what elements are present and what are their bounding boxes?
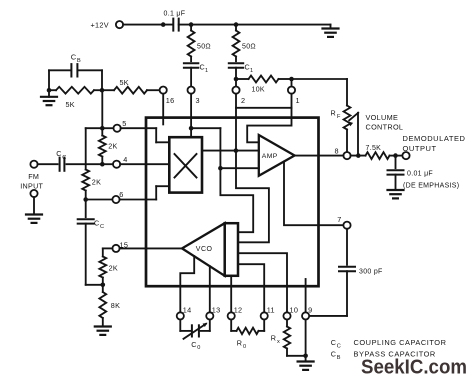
wire pin15 into IC xyxy=(120,247,182,249)
svg-text:0.1 μF: 0.1 μF xyxy=(164,11,186,18)
svg-text:2K: 2K xyxy=(108,142,117,151)
svg-text:11: 11 xyxy=(267,305,275,314)
capacitor CB xyxy=(49,53,102,77)
pin 5 terminal xyxy=(114,119,127,132)
wire pin6 into IC xyxy=(120,186,170,199)
wire pin12-R0 xyxy=(231,320,236,331)
oscillator VCO xyxy=(182,223,238,276)
capacitor 300pF xyxy=(339,267,383,276)
wiper arrow RF xyxy=(348,113,403,156)
svg-text:2: 2 xyxy=(241,96,245,105)
resistor 50ohm-2 xyxy=(233,31,256,57)
resistor 50ohm-1 xyxy=(188,31,211,57)
svg-text:4: 4 xyxy=(123,155,127,164)
node wiper-out xyxy=(356,153,361,158)
svg-text:+12V: +12V xyxy=(91,21,109,30)
node rail-50ohm-1 xyxy=(189,22,194,27)
resistor 2K-1 xyxy=(99,128,118,164)
pin 16 terminal xyxy=(160,87,175,106)
pin 8 terminal xyxy=(335,147,351,160)
pin 6 terminal xyxy=(112,190,123,203)
svg-text:50Ω: 50Ω xyxy=(197,44,211,51)
potentiometer RF xyxy=(331,106,351,130)
wire RF-pin8 xyxy=(346,130,348,152)
multiplier block xyxy=(169,137,202,192)
wire 50ohm2-C1 xyxy=(235,57,237,62)
pin 7 terminal xyxy=(337,215,350,229)
pin 15 terminal xyxy=(112,240,128,252)
legend CC xyxy=(331,338,447,350)
wire amp output pin8 xyxy=(295,155,344,157)
svg-text:C: C xyxy=(191,340,197,349)
node output xyxy=(393,153,398,158)
svg-text:C: C xyxy=(337,343,341,349)
wire +12V rail left xyxy=(123,24,172,26)
wire 50ohm1 top xyxy=(190,25,192,31)
wire VCO-pin13 xyxy=(209,266,211,312)
svg-text:x: x xyxy=(277,339,280,345)
wire 50ohm1-C1 xyxy=(190,57,192,62)
wire C1-pin3 xyxy=(190,68,192,87)
wire nodeB down xyxy=(85,200,87,218)
op-amp AMP xyxy=(259,135,295,176)
node rail-pin16 xyxy=(161,22,166,27)
wire 300pF-pin9 xyxy=(309,271,347,316)
wire 7.5K-out xyxy=(390,155,403,157)
svg-text:C: C xyxy=(100,224,104,230)
wire pin4 into IC xyxy=(120,163,169,165)
svg-text:9: 9 xyxy=(308,305,312,314)
svg-text:R: R xyxy=(271,334,277,343)
svg-text:B: B xyxy=(337,355,341,361)
svg-text:C: C xyxy=(62,155,66,161)
svg-text:0.01 μF: 0.01 μF xyxy=(407,171,433,178)
node J2 xyxy=(234,148,239,153)
resistor 5K-2 xyxy=(102,78,160,93)
pin 10 terminal xyxy=(283,305,298,319)
ground pin9 xyxy=(298,356,314,370)
svg-text:INPUT: INPUT xyxy=(20,182,43,191)
capacitor C1-1 xyxy=(184,63,208,74)
demodulated output terminal xyxy=(402,134,465,159)
pin 13 terminal xyxy=(206,305,220,319)
svg-text:FM: FM xyxy=(28,172,39,181)
wire pin13-C0 xyxy=(201,320,210,331)
node CB-right xyxy=(100,88,105,93)
svg-text:7.5K: 7.5K xyxy=(366,145,382,152)
svg-text:0: 0 xyxy=(197,345,200,351)
wire pin5 into IC xyxy=(121,128,170,142)
svg-text:10K: 10K xyxy=(252,87,265,94)
wire nodeB-pin6 xyxy=(86,199,113,201)
pin 1 terminal xyxy=(288,79,300,105)
node 10K-left xyxy=(234,77,239,82)
wire CBnode down xyxy=(101,90,103,128)
wire J1-J3 xyxy=(191,128,220,168)
wire mult-amp input upper xyxy=(202,150,259,152)
pin 2 terminal xyxy=(232,87,245,106)
wire pin9 down xyxy=(305,320,307,356)
svg-text:12: 12 xyxy=(234,305,243,314)
wire pin1-RF xyxy=(292,79,348,106)
node CB-left xyxy=(47,88,52,93)
svg-text:0: 0 xyxy=(243,344,246,350)
wire pin10-Rx xyxy=(286,320,288,327)
svg-text:C: C xyxy=(94,219,100,228)
resistor 2K-3 xyxy=(99,257,118,285)
svg-text:5: 5 xyxy=(122,119,126,128)
wire CB left leg xyxy=(48,70,50,90)
wire VCO-pin14 xyxy=(180,256,194,312)
wire VCO-pin10 xyxy=(238,253,287,312)
wire VCO-pin11 xyxy=(238,264,264,312)
node B pin6 junction xyxy=(83,197,88,202)
ground 8K xyxy=(95,327,111,335)
svg-text:C: C xyxy=(331,338,337,347)
wire pin2-pin1 link xyxy=(236,94,292,108)
resistor Rx xyxy=(271,327,290,349)
svg-text:F: F xyxy=(337,114,341,120)
wire nodeD-pin4 xyxy=(102,163,113,165)
node J3 xyxy=(218,166,223,171)
svg-text:1: 1 xyxy=(250,68,253,74)
wire amp-pin7 xyxy=(284,162,343,226)
svg-text:13: 13 xyxy=(212,305,221,314)
resistor 2K-2 xyxy=(82,170,101,200)
svg-text:B: B xyxy=(77,58,81,64)
svg-text:16: 16 xyxy=(166,96,175,105)
wire Rx-gnd xyxy=(287,349,306,356)
svg-text:3: 3 xyxy=(196,96,200,105)
svg-text:14: 14 xyxy=(183,305,192,314)
pin 12 terminal xyxy=(228,305,243,319)
FM input terminal xyxy=(20,161,43,191)
node J1 xyxy=(189,126,194,131)
svg-text:5K: 5K xyxy=(120,78,129,87)
svg-text:DEMODULATED: DEMODULATED xyxy=(403,134,466,143)
wire C1-node xyxy=(235,68,237,87)
pin 3 terminal xyxy=(188,87,200,106)
wire nodeA-pin5 xyxy=(102,127,113,129)
svg-text:OUTPUT: OUTPUT xyxy=(403,144,437,153)
node 10K-pin1 xyxy=(289,77,294,82)
capacitor 0.1uF xyxy=(164,11,186,31)
node pin9-gnd xyxy=(303,354,308,359)
capacitor C1-2 xyxy=(229,63,253,74)
wire pin2 stub xyxy=(235,94,237,108)
node rail-50ohm-2 xyxy=(234,22,239,27)
svg-text:6: 6 xyxy=(119,190,123,199)
capacitor CC coupling xyxy=(56,149,66,171)
watermark SeekIC.com xyxy=(361,356,467,379)
wire CC2 down xyxy=(86,224,103,285)
resistor 8K xyxy=(99,285,120,327)
wire out-cap xyxy=(395,156,397,169)
svg-text:8: 8 xyxy=(335,147,339,156)
svg-text:5K: 5K xyxy=(66,100,75,109)
wire pin14-C0 xyxy=(180,320,190,331)
wire pin15 left xyxy=(103,248,113,256)
svg-text:(DE EMPHASIS): (DE EMPHASIS) xyxy=(403,182,459,189)
wire rail mid xyxy=(179,24,331,26)
wire pin2 down staircase xyxy=(236,108,269,243)
resistor 5K-1 xyxy=(49,87,102,109)
svg-text:2K: 2K xyxy=(92,178,101,187)
svg-text:R: R xyxy=(331,109,337,118)
IC U1 outline xyxy=(146,118,319,287)
wire nodeA branch left xyxy=(86,128,103,169)
capacitor C0 variable xyxy=(184,323,208,351)
svg-text:8K: 8K xyxy=(111,301,120,310)
wire pin7-300pF xyxy=(346,229,348,265)
ground CB xyxy=(41,90,57,105)
wire amp input lower xyxy=(220,167,258,169)
svg-text:C: C xyxy=(331,349,337,358)
wire CC-nodeD xyxy=(67,163,103,165)
node C xyxy=(101,283,106,288)
capacitor CC bypass-2 xyxy=(78,219,104,231)
svg-text:10: 10 xyxy=(290,305,299,314)
wire pin11-R0 xyxy=(259,320,265,331)
wire CB right leg xyxy=(101,70,103,90)
legend CB xyxy=(331,349,436,361)
ground de-emphasis xyxy=(388,190,404,198)
wire pin1 zigzag to amp xyxy=(247,108,291,143)
wire pin16-IC xyxy=(162,94,164,125)
svg-text:1: 1 xyxy=(296,96,300,105)
wire 50ohm2 top xyxy=(235,25,237,31)
svg-text:C: C xyxy=(56,149,62,158)
wire cap-gnd xyxy=(395,175,397,190)
resistor 7.5K xyxy=(366,145,390,159)
svg-text:7: 7 xyxy=(337,215,341,224)
svg-text:AMP: AMP xyxy=(262,153,278,160)
node D pin4 junction xyxy=(100,162,105,167)
node A pin5 junction xyxy=(100,126,105,131)
pin 9 terminal xyxy=(302,305,312,319)
+12V supply terminal xyxy=(91,21,124,30)
pin 11 terminal xyxy=(261,305,275,319)
svg-text:VOLUME: VOLUME xyxy=(366,113,399,122)
svg-text:1: 1 xyxy=(205,68,208,74)
svg-text:CONTROL: CONTROL xyxy=(366,123,404,132)
svg-text:2K: 2K xyxy=(109,264,118,273)
svg-text:300 pF: 300 pF xyxy=(359,268,383,275)
ground top-right xyxy=(323,25,339,37)
svg-text:VCO: VCO xyxy=(196,246,213,253)
resistor 10K xyxy=(236,76,292,94)
wire pin9 stub xyxy=(305,279,307,312)
wire VCO-pin12 xyxy=(230,276,232,313)
capacitor 0.01uF de-emphasis xyxy=(388,170,460,189)
svg-text:R: R xyxy=(237,339,243,348)
svg-text:COUPLING CAPACITOR: COUPLING CAPACITOR xyxy=(354,338,447,347)
svg-text:50Ω: 50Ω xyxy=(242,44,256,51)
pin 4 terminal xyxy=(113,155,128,168)
svg-text:SeekIC.com: SeekIC.com xyxy=(361,356,467,379)
wire pin3 into IC xyxy=(190,94,192,137)
pin 14 terminal xyxy=(177,305,192,319)
wire FM-CC xyxy=(38,163,58,165)
svg-text:C: C xyxy=(71,53,77,62)
FM ground terminal xyxy=(26,190,42,223)
wire pin8-7.5K xyxy=(351,155,366,157)
resistor R0 xyxy=(237,328,259,351)
wire J3-VCO staircase xyxy=(220,168,253,232)
